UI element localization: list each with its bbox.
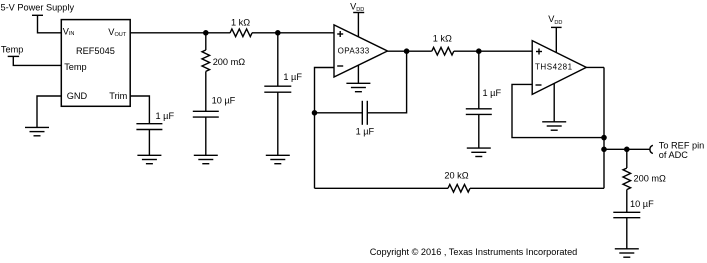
svg-text:1 µF: 1 µF — [156, 111, 175, 121]
svg-text:1 µF: 1 µF — [356, 127, 375, 137]
svg-text:Temp: Temp — [64, 62, 86, 72]
svg-text:REF5045: REF5045 — [76, 46, 115, 56]
svg-text:GND: GND — [67, 91, 88, 101]
svg-text:200 mΩ: 200 mΩ — [213, 57, 246, 67]
svg-text:To REF pin: To REF pin — [659, 140, 704, 150]
svg-text:1 µF: 1 µF — [483, 88, 502, 98]
svg-text:Temp: Temp — [1, 45, 23, 55]
svg-text:1 kΩ: 1 kΩ — [231, 18, 250, 28]
svg-text:10 µF: 10 µF — [630, 199, 654, 209]
svg-text:20 kΩ: 20 kΩ — [444, 171, 468, 181]
svg-text:200 mΩ: 200 mΩ — [634, 173, 667, 183]
svg-text:10 µF: 10 µF — [212, 96, 236, 106]
svg-text:THS4281: THS4281 — [535, 63, 573, 72]
svg-text:5-V Power Supply: 5-V Power Supply — [1, 3, 75, 13]
svg-text:1 kΩ: 1 kΩ — [433, 33, 452, 43]
svg-text:1 µF: 1 µF — [283, 72, 302, 82]
svg-text:of ADC: of ADC — [659, 150, 688, 160]
svg-text:Trim: Trim — [109, 91, 127, 101]
svg-text:OPA333: OPA333 — [338, 46, 370, 55]
svg-text:Copyright © 2016 , Texas Instr: Copyright © 2016 , Texas Instruments Inc… — [370, 246, 578, 257]
